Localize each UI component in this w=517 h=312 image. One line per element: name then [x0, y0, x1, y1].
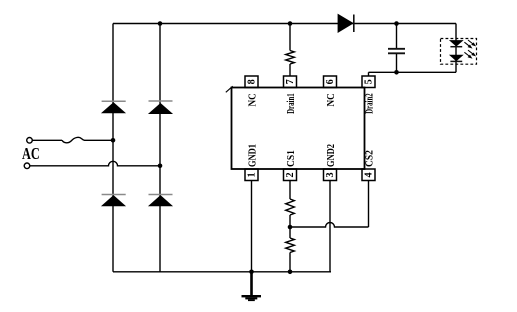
LED D7	[450, 50, 475, 61]
IC corner mark	[226, 86, 233, 92]
svg-text:8: 8	[247, 79, 258, 84]
wire pin 4 drop	[368, 181, 370, 228]
svg-text:NC: NC	[325, 93, 337, 106]
wire pin 2 to R2	[289, 181, 291, 200]
pin 5 box	[362, 76, 375, 88]
AC terminal T2	[24, 163, 30, 169]
wire left bridge leg	[112, 24, 114, 272]
capacitor C1	[388, 24, 405, 73]
pin 1 box	[245, 169, 258, 181]
pin 8 box	[245, 76, 258, 88]
wire AC line 2 with hop over left leg	[30, 161, 160, 166]
wire R1 to pin 7	[289, 64, 291, 76]
wire AC line 1 to bridge node	[84, 139, 113, 141]
junction node R2/R3 divider tap	[288, 225, 293, 230]
wire LED branch vertical	[455, 24, 457, 73]
svg-text:AC: AC	[22, 144, 40, 163]
wire R2 to R3	[289, 215, 291, 238]
wire R3 to ground rail	[289, 253, 291, 272]
pin 3 box	[324, 169, 337, 181]
junction node top rail / R1 branch	[288, 21, 293, 26]
LED D6	[450, 40, 475, 48]
svg-text:5: 5	[364, 79, 375, 84]
diode D3 (bridge lower-left)	[102, 195, 126, 206]
diode D4 (bridge lower-right)	[149, 195, 173, 206]
junction node top rail / right leg	[158, 21, 163, 26]
wire resistor R1 branch top	[289, 24, 291, 51]
wire pin 1 to ground rail	[251, 181, 253, 272]
svg-text:CS2: CS2	[363, 150, 375, 167]
svg-text:4: 4	[364, 172, 375, 177]
resistor R1	[286, 51, 295, 65]
wire right bridge leg	[159, 24, 161, 272]
svg-text:6: 6	[325, 79, 336, 84]
junction node ground rail / R3	[288, 270, 293, 275]
ground symbol	[242, 272, 262, 301]
svg-text:GND1: GND1	[246, 144, 258, 167]
IC U1 body	[232, 88, 365, 170]
wire bottom rail	[113, 271, 331, 273]
resistor R2	[286, 199, 295, 215]
junction node AC2 / right leg	[158, 164, 163, 169]
wire top rail	[113, 23, 456, 25]
diode D1 (bridge upper-left)	[102, 101, 126, 113]
svg-text:Drain1: Drain1	[285, 93, 297, 114]
svg-text:3: 3	[325, 172, 336, 177]
AC terminal T1	[27, 138, 33, 144]
wire CS divider tap to pin 4 with hop over pin 3 wire	[290, 223, 369, 227]
svg-text:Drain2: Drain2	[363, 93, 375, 114]
junction node C1 bottom / output return	[394, 70, 399, 75]
svg-text:CS1: CS1	[285, 150, 297, 167]
pin 2 box	[284, 169, 297, 181]
junction node top rail / C1 top	[394, 21, 399, 26]
wire AC line 1	[32, 139, 62, 141]
pin 4 box	[362, 169, 375, 181]
wire pin 3 to ground rail	[329, 181, 331, 272]
diode D2 (bridge upper-right)	[149, 101, 173, 114]
junction node ground rail / pin1	[249, 270, 254, 275]
wire pin 5 riser	[368, 72, 370, 76]
svg-text:GND2: GND2	[325, 144, 337, 167]
svg-text:1: 1	[247, 172, 258, 177]
pin 6 box	[324, 76, 337, 88]
pin 7 box	[284, 76, 297, 88]
svg-text:7: 7	[285, 79, 296, 84]
fuse F1	[62, 137, 85, 142]
svg-text:2: 2	[285, 172, 296, 177]
resistor R3	[286, 238, 295, 253]
wire output bottom (pin5 to LED return)	[369, 71, 457, 73]
dashed enclosure LED module	[441, 39, 477, 65]
svg-text:NC: NC	[246, 93, 258, 106]
junction node AC1 / left leg	[111, 138, 116, 143]
diode D5 (series output diode)	[338, 14, 354, 32]
